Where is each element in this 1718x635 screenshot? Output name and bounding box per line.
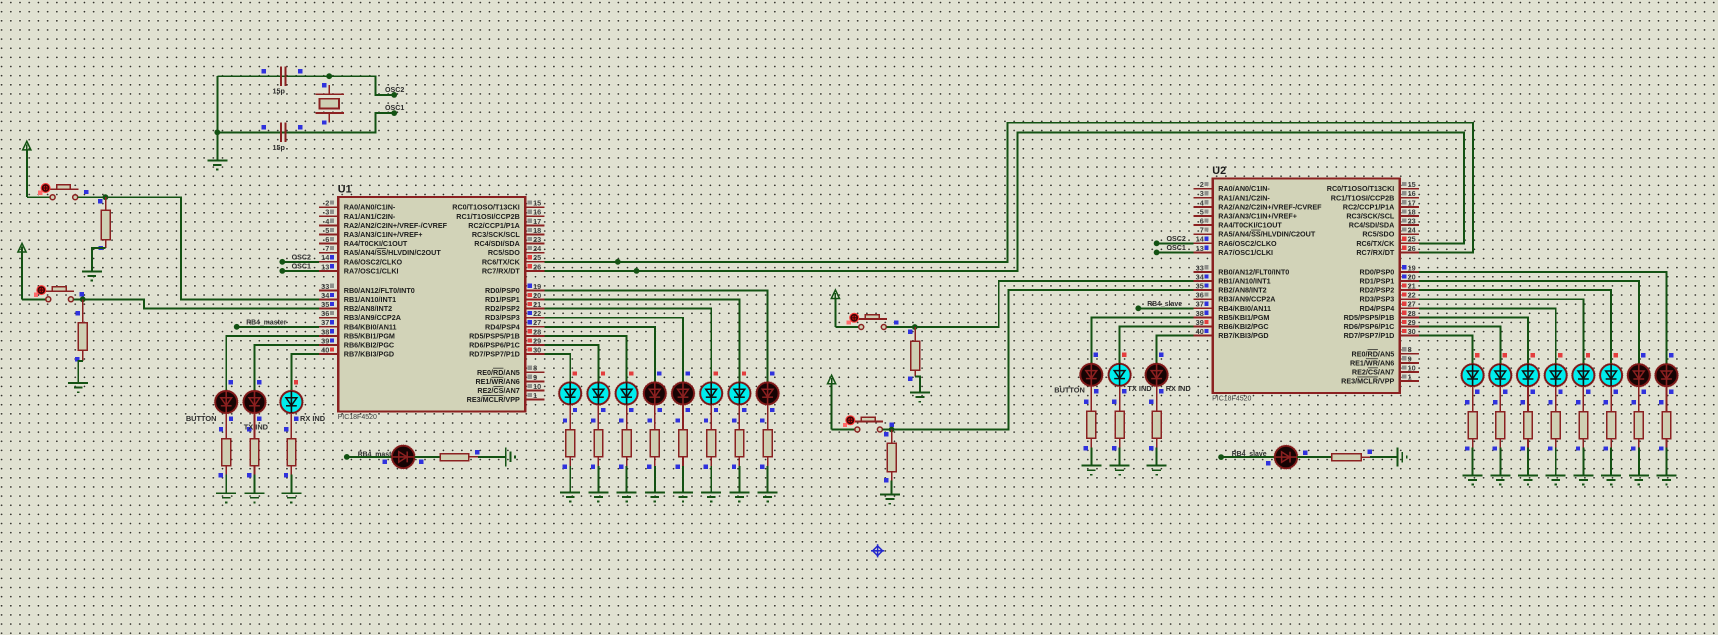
svg-text:RB4_slave: RB4_slave <box>1147 301 1182 308</box>
svg-text:15: 15 <box>533 199 541 208</box>
svg-text:RC2/CCP1/P1A: RC2/CCP1/P1A <box>468 221 520 230</box>
wire left rail to ground <box>216 76 218 160</box>
svg-text:RA7/OSC1/CLKI: RA7/OSC1/CLKI <box>1218 248 1273 257</box>
svg-text:RB0/AN12/FLT0/INT0: RB0/AN12/FLT0/INT0 <box>1218 267 1289 276</box>
svg-text:34: 34 <box>1196 272 1205 281</box>
LED D10 RB4_slave <box>1266 445 1307 470</box>
svg-text:RA4/T0CKI/C1OUT: RA4/T0CKI/C1OUT <box>1218 221 1282 230</box>
svg-text:RC7/RX/DT: RC7/RX/DT <box>1356 248 1395 257</box>
resistor R1 pulldown <box>92 197 110 271</box>
LED bank2 D4 (RD4) <box>1544 351 1568 484</box>
svg-text:RD6/PSP6/P1C: RD6/PSP6/P1C <box>1344 322 1395 331</box>
svg-text:39: 39 <box>321 336 329 345</box>
svg-text:OSC1: OSC1 <box>292 263 311 271</box>
svg-text:26: 26 <box>1408 244 1416 253</box>
svg-text:26: 26 <box>533 262 541 271</box>
node RX wire dot <box>634 268 640 274</box>
svg-text:29: 29 <box>1408 318 1416 327</box>
svg-text:5: 5 <box>325 226 329 235</box>
svg-text:RD7/PSP7/P1D: RD7/PSP7/P1D <box>1344 331 1395 340</box>
svg-text:30: 30 <box>1408 327 1416 336</box>
svg-text:39: 39 <box>1196 318 1204 327</box>
svg-text:37: 37 <box>1196 300 1204 309</box>
svg-text:RE2/CS/AN7: RE2/CS/AN7 <box>1352 368 1394 377</box>
svg-text:RD1/PSP1: RD1/PSP1 <box>485 295 520 304</box>
svg-text:18: 18 <box>533 226 541 235</box>
svg-text:35: 35 <box>1196 282 1204 291</box>
svg-text:RA5/AN4/SS/HLVDIN/C2OUT: RA5/AN4/SS/HLVDIN/C2OUT <box>344 248 442 257</box>
svg-text:RD5/PSP5/P1B: RD5/PSP5/P1B <box>1344 313 1395 322</box>
wire U1 TX (pin25) to U2 RX (pin26) <box>545 123 1473 262</box>
wire U2 pin19 (RD0) to bank LED 8 <box>1419 272 1666 351</box>
LED slave TX IND indicator <box>1108 351 1153 475</box>
svg-text:33: 33 <box>1196 263 1204 272</box>
svg-text:RC7/RX/DT: RC7/RX/DT <box>482 266 521 275</box>
wire U1 pin21 (RD2) to bank LED 6 <box>545 309 712 370</box>
svg-text:15p: 15p <box>273 87 286 96</box>
svg-text:38: 38 <box>321 327 329 336</box>
svg-text:RC3/SCK/SCL: RC3/SCK/SCL <box>1346 212 1395 221</box>
svg-text:23: 23 <box>1408 217 1416 226</box>
wire U1 RX (pin26) to U2 TX (pin25) <box>545 133 1464 271</box>
svg-text:RD0/PSP0: RD0/PSP0 <box>485 286 520 295</box>
svg-text:RD4/PSP4: RD4/PSP4 <box>1360 304 1395 313</box>
svg-text:RA5/AN4/SS/HLVDIN/C2OUT: RA5/AN4/SS/HLVDIN/C2OUT <box>1218 230 1316 239</box>
svg-text:27: 27 <box>533 318 541 327</box>
LED slave BUTTON indicator <box>1054 351 1103 475</box>
svg-text:21: 21 <box>1408 282 1416 291</box>
LED bank2 D1 (RD7) <box>1461 351 1485 484</box>
svg-text:3: 3 <box>325 208 329 217</box>
button master (to RB1) <box>38 183 88 200</box>
node RB4_slave terminal (U2 pin37) <box>1135 301 1193 311</box>
wire VCC to button1 <box>27 196 50 198</box>
svg-text:RC1/T1OSI/CCP2B: RC1/T1OSI/CCP2B <box>1331 193 1395 202</box>
node OSC2 terminal (crystal) <box>385 86 404 98</box>
svg-text:RB0/AN12/FLT0/INT0: RB0/AN12/FLT0/INT0 <box>344 286 415 295</box>
svg-text:35: 35 <box>321 300 329 309</box>
svg-text:RB2/AN8/INT2: RB2/AN8/INT2 <box>1218 286 1266 295</box>
svg-text:21: 21 <box>533 300 541 309</box>
LED bank1 D8 (RD0) <box>756 369 780 501</box>
svg-text:RC1/T1OSI/CCP2B: RC1/T1OSI/CCP2B <box>456 212 520 221</box>
svg-text:5: 5 <box>1200 207 1204 216</box>
node OSC1 terminal (crystal) <box>385 104 404 116</box>
svg-text:RE0/RD/AN5: RE0/RD/AN5 <box>1352 349 1395 358</box>
svg-text:RB5/KBI1/PGM: RB5/KBI1/PGM <box>1218 313 1269 322</box>
LED slave RX IND indicator <box>1145 351 1192 475</box>
svg-text:27: 27 <box>1408 300 1416 309</box>
svg-text:RD6/PSP6/P1C: RD6/PSP6/P1C <box>469 341 520 350</box>
svg-text:14: 14 <box>321 253 330 262</box>
svg-text:RA4/T0CKI/C1OUT: RA4/T0CKI/C1OUT <box>344 239 408 248</box>
ground R4 <box>910 393 930 402</box>
resistor R6 (RB4_slave) <box>1297 450 1397 461</box>
wire U1 pin20 (RD1) to bank LED 7 <box>545 300 740 370</box>
svg-text:20: 20 <box>1408 272 1416 281</box>
resistor R4 pulldown <box>908 327 920 393</box>
svg-text:RE3/MCLR/VPP: RE3/MCLR/VPP <box>467 395 520 404</box>
svg-text:RB5/KBI1/PGM: RB5/KBI1/PGM <box>344 331 395 340</box>
svg-text:RE0/RD/AN5: RE0/RD/AN5 <box>477 368 520 377</box>
svg-text:22: 22 <box>1408 291 1416 300</box>
svg-text:RB6/KBI2/PGC: RB6/KBI2/PGC <box>1218 322 1268 331</box>
svg-text:3: 3 <box>1200 189 1204 198</box>
LED bank1 D6 (RD2) <box>699 369 723 501</box>
svg-text:U2: U2 <box>1212 165 1226 177</box>
resistor R2 pulldown <box>75 299 87 383</box>
svg-text:RC0/T1OSO/T13CKI: RC0/T1OSO/T13CKI <box>1327 184 1395 193</box>
LED D9 RB4_master <box>382 445 423 470</box>
wire U2 pin29 (RD6) to bank LED 2 <box>1419 327 1500 352</box>
svg-text:36: 36 <box>321 309 329 318</box>
svg-text:RC5/SDO: RC5/SDO <box>488 248 520 257</box>
resistor R5 pulldown <box>884 430 896 495</box>
svg-text:7: 7 <box>325 244 329 253</box>
capacitor C2 15p <box>262 123 303 152</box>
svg-text:19: 19 <box>1408 263 1416 272</box>
svg-text:RE1/WR/AN6: RE1/WR/AN6 <box>1350 358 1394 367</box>
svg-text:RC0/T1OSO/T13CKI: RC0/T1OSO/T13CKI <box>452 203 520 212</box>
svg-text:23: 23 <box>533 235 541 244</box>
wire U2 pin38 to slave BUTTON LED <box>1091 317 1193 350</box>
svg-text:PIC18F4520: PIC18F4520 <box>338 414 377 421</box>
svg-text:RD2/PSP2: RD2/PSP2 <box>485 304 520 313</box>
wire U2 pin27 (RD4) to bank LED 4 <box>1419 308 1556 351</box>
wire U1 pin38 to BUTTON LED <box>226 336 319 378</box>
svg-text:RB3/AN9/CCP2A: RB3/AN9/CCP2A <box>344 313 401 322</box>
svg-text:OSC2: OSC2 <box>385 86 404 94</box>
power VCC arrow (button 3) <box>831 290 839 327</box>
svg-text:RA3/AN3/C1IN+/VREF+: RA3/AN3/C1IN+/VREF+ <box>1218 212 1297 221</box>
node button4 junction <box>889 427 895 433</box>
wire U1 pin28 (RD5) to bank LED 3 <box>545 336 627 370</box>
svg-text:RD5/PSP5/P1B: RD5/PSP5/P1B <box>469 331 520 340</box>
svg-text:28: 28 <box>533 327 541 336</box>
svg-text:OSC2: OSC2 <box>292 253 311 261</box>
svg-text:RA0/AN0/C1IN-: RA0/AN0/C1IN- <box>1218 184 1270 193</box>
svg-text:24: 24 <box>533 244 542 253</box>
svg-text:19: 19 <box>533 282 541 291</box>
wire U1 pin27 (RD4) to bank LED 4 <box>545 327 655 370</box>
node OSC2 terminal (U1 pin14) <box>279 253 319 264</box>
wire U2 pin39 to slave TX IND LED <box>1120 327 1194 351</box>
svg-text:RE1/WR/AN6: RE1/WR/AN6 <box>475 377 519 386</box>
svg-text:RE3/MCLR/VPP: RE3/MCLR/VPP <box>1341 377 1394 386</box>
svg-text:RB4_master: RB4_master <box>246 320 287 327</box>
LED bank1 D4 (RD4) <box>643 369 667 501</box>
svg-text:RC4/SDI/SDA: RC4/SDI/SDA <box>1349 221 1395 230</box>
svg-text:RB4/KBI0/AN11: RB4/KBI0/AN11 <box>1218 304 1271 313</box>
svg-text:9: 9 <box>1408 354 1412 363</box>
svg-text:34: 34 <box>321 291 330 300</box>
node sheet origin marker <box>871 544 884 557</box>
wire RB4_master to LED D9 <box>347 456 392 458</box>
svg-text:20: 20 <box>533 291 541 300</box>
LED bank2 D5 (RD3) <box>1571 351 1595 484</box>
svg-text:15: 15 <box>1408 180 1416 189</box>
node TX wire dot <box>615 259 621 265</box>
LED master RX IND indicator <box>279 378 325 502</box>
svg-text:25: 25 <box>1408 235 1416 244</box>
svg-text:1: 1 <box>533 391 537 400</box>
LED bank2 D6 (RD2) <box>1599 351 1623 484</box>
svg-text:6: 6 <box>1200 217 1204 226</box>
wire U1 pin40 to RX IND LED <box>291 354 319 378</box>
svg-text:OSC1: OSC1 <box>385 104 404 112</box>
wire button4 to U2 pin35 <box>882 290 1193 436</box>
wire U2 pin40 to slave RX IND LED <box>1157 336 1194 351</box>
svg-text:RD2/PSP2: RD2/PSP2 <box>1360 286 1395 295</box>
wire crystal bottom net <box>217 113 394 132</box>
svg-text:RD3/PSP3: RD3/PSP3 <box>485 313 520 322</box>
svg-text:13: 13 <box>1196 244 1204 253</box>
svg-text:RA1/AN1/C2IN-: RA1/AN1/C2IN- <box>344 212 396 221</box>
svg-text:8: 8 <box>1408 345 1412 354</box>
ground RB4_master chain <box>506 447 515 466</box>
svg-text:RB4/KBI0/AN11: RB4/KBI0/AN11 <box>344 322 397 331</box>
wire crystal top net <box>217 76 394 95</box>
node button3 junction <box>912 324 918 330</box>
wire VCC to button2 <box>22 298 46 300</box>
wire U1 pin30 (RD7) to bank LED 1 <box>545 354 571 369</box>
button slave 2 (to RB2) <box>843 415 894 432</box>
svg-text:6: 6 <box>325 235 329 244</box>
svg-text:17: 17 <box>1408 198 1416 207</box>
svg-text:17: 17 <box>533 217 541 226</box>
svg-text:RA7/OSC1/CLKI: RA7/OSC1/CLKI <box>344 266 399 275</box>
svg-text:16: 16 <box>533 208 541 217</box>
svg-text:RB1/AN10/INT1: RB1/AN10/INT1 <box>344 295 396 304</box>
ground R5 <box>880 495 900 504</box>
wire U2 pin30 (RD7) to bank LED 1 <box>1419 336 1472 352</box>
svg-text:RX IND: RX IND <box>1166 384 1192 393</box>
wire U2 pin21 (RD2) to bank LED 6 <box>1419 290 1611 351</box>
svg-text:RA2/AN2/C2IN+/VREF-/CVREF: RA2/AN2/C2IN+/VREF-/CVREF <box>344 221 448 230</box>
LED bank1 D1 (RD7) <box>558 369 582 501</box>
svg-text:RB3/AN9/CCP2A: RB3/AN9/CCP2A <box>1218 295 1275 304</box>
svg-text:24: 24 <box>1408 226 1417 235</box>
svg-text:36: 36 <box>1196 291 1204 300</box>
svg-text:18: 18 <box>1408 207 1416 216</box>
wire button1 to U1 pin34 <box>78 197 319 299</box>
resistor R3 (RB4_master) <box>414 450 505 461</box>
node button2 junction <box>80 296 86 302</box>
node OSC2 terminal (U2 pin14) <box>1154 235 1194 246</box>
LED bank1 D3 (RD5) <box>615 369 639 501</box>
wire U1 pin19 (RD0) to bank LED 8 <box>545 290 768 369</box>
svg-text:RB7/KBI3/PGD: RB7/KBI3/PGD <box>1218 331 1268 340</box>
svg-text:RD0/PSP0: RD0/PSP0 <box>1360 267 1395 276</box>
svg-text:RA3/AN3/C1IN+/VREF+: RA3/AN3/C1IN+/VREF+ <box>344 230 423 239</box>
svg-text:BUTTON: BUTTON <box>1054 386 1085 395</box>
microcontroller U2 PIC18F4520 <box>1193 165 1419 403</box>
svg-text:33: 33 <box>321 282 329 291</box>
svg-text:10: 10 <box>1408 363 1416 372</box>
svg-text:RA6/OSC2/CLKO: RA6/OSC2/CLKO <box>344 257 403 266</box>
power VCC arrow (button 4) <box>828 375 836 429</box>
svg-text:RC2/CCP1/P1A: RC2/CCP1/P1A <box>1343 202 1395 211</box>
wire VCC to button4 <box>832 429 855 431</box>
svg-text:40: 40 <box>321 346 329 355</box>
node button1 junction <box>103 194 109 200</box>
LED bank1 D7 (RD1) <box>727 369 751 501</box>
wire button3 to U2 pin34 <box>886 281 1193 334</box>
power VCC arrow (button 2) <box>18 243 26 299</box>
svg-text:RD4/PSP4: RD4/PSP4 <box>485 322 520 331</box>
svg-text:RB2/AN8/INT2: RB2/AN8/INT2 <box>344 304 392 313</box>
wire U2 pin20 (RD1) to bank LED 7 <box>1419 281 1639 351</box>
svg-text:15p: 15p <box>273 143 286 152</box>
svg-text:8: 8 <box>533 364 537 373</box>
svg-text:40: 40 <box>1196 327 1204 336</box>
wire U1 pin22 (RD3) to bank LED 5 <box>545 318 683 370</box>
ground crystal rail <box>207 160 227 169</box>
LED bank2 D2 (RD6) <box>1488 351 1512 484</box>
svg-text:RD1/PSP1: RD1/PSP1 <box>1360 277 1395 286</box>
svg-text:28: 28 <box>1408 309 1416 318</box>
microcontroller U1 PIC18F4520 <box>319 184 545 422</box>
svg-text:RX IND: RX IND <box>300 414 326 423</box>
node RB4_master terminal (U1 pin37) <box>234 320 319 330</box>
node RB4_slave terminal (LED chain) <box>1218 451 1267 460</box>
button master 2 (to RB2) <box>34 285 84 302</box>
svg-text:RA2/AN2/C2IN+/VREF-/CVREF: RA2/AN2/C2IN+/VREF-/CVREF <box>1218 202 1322 211</box>
svg-text:TX IND: TX IND <box>1127 384 1152 393</box>
svg-text:RB6/KBI2/PGC: RB6/KBI2/PGC <box>344 341 394 350</box>
svg-text:2: 2 <box>325 199 329 208</box>
svg-text:1: 1 <box>1408 373 1412 382</box>
svg-text:TX IND: TX IND <box>244 422 269 431</box>
svg-text:OSC2: OSC2 <box>1167 235 1186 243</box>
svg-text:9: 9 <box>533 373 537 382</box>
svg-text:RA1/AN1/C2IN-: RA1/AN1/C2IN- <box>1218 193 1270 202</box>
ground R2 <box>68 383 88 392</box>
LED bank1 D5 (RD3) <box>671 369 695 501</box>
svg-text:14: 14 <box>1196 235 1205 244</box>
ground R1 <box>82 271 102 280</box>
wire U1 pin39 to TX IND LED <box>255 345 319 378</box>
power VCC arrow (button 1) <box>23 141 31 197</box>
svg-text:13: 13 <box>321 262 329 271</box>
node RB4_master terminal (LED chain) <box>344 451 398 459</box>
svg-text:RB7/KBI3/PGD: RB7/KBI3/PGD <box>344 350 394 359</box>
svg-text:RA0/AN0/C1IN-: RA0/AN0/C1IN- <box>344 203 396 212</box>
svg-text:7: 7 <box>1200 226 1204 235</box>
svg-text:30: 30 <box>533 346 541 355</box>
svg-text:RD3/PSP3: RD3/PSP3 <box>1360 295 1395 304</box>
button slave (to RB1) <box>847 313 899 330</box>
svg-text:RC4/SDI/SDA: RC4/SDI/SDA <box>474 239 520 248</box>
svg-text:RD7/PSP7/P1D: RD7/PSP7/P1D <box>469 350 520 359</box>
svg-text:U1: U1 <box>338 184 352 196</box>
svg-text:RB1/AN10/INT1: RB1/AN10/INT1 <box>1218 277 1270 286</box>
svg-text:RE2/CS/AN7: RE2/CS/AN7 <box>477 386 519 395</box>
LED master BUTTON indicator <box>186 378 238 502</box>
LED bank2 D7 (RD1) <box>1627 351 1651 484</box>
LED master TX IND indicator <box>242 378 268 502</box>
svg-text:PIC18F4520: PIC18F4520 <box>1212 396 1251 403</box>
svg-text:RC6/TX/CK: RC6/TX/CK <box>482 257 521 266</box>
wire VCC to button3 <box>835 326 858 328</box>
svg-text:16: 16 <box>1408 189 1416 198</box>
node OSC1 terminal (U1 pin13) <box>279 263 319 274</box>
wire button2 to U1 pin35 <box>73 299 319 315</box>
crystal X1 <box>316 83 344 125</box>
svg-text:RC3/SCK/SCL: RC3/SCK/SCL <box>472 230 521 239</box>
node OSC1 terminal (U2 pin13) <box>1154 244 1194 255</box>
svg-text:RC5/SDO: RC5/SDO <box>1362 230 1394 239</box>
svg-text:38: 38 <box>1196 309 1204 318</box>
ground RB4_slave chain <box>1398 448 1407 467</box>
svg-text:10: 10 <box>533 382 541 391</box>
LED bank2 D8 (RD0) <box>1654 351 1678 484</box>
svg-text:37: 37 <box>321 318 329 327</box>
svg-text:25: 25 <box>533 253 541 262</box>
node crystal top junction <box>326 73 332 79</box>
svg-text:29: 29 <box>533 336 541 345</box>
wire U2 pin22 (RD3) to bank LED 5 <box>1419 299 1583 351</box>
wire RB4_slave to LED D10 <box>1221 456 1275 458</box>
svg-text:2: 2 <box>1200 180 1204 189</box>
wire U1 pin29 (RD6) to bank LED 2 <box>545 345 599 369</box>
svg-text:22: 22 <box>533 309 541 318</box>
svg-text:BUTTON: BUTTON <box>186 414 217 423</box>
svg-text:RC6/TX/CK: RC6/TX/CK <box>1356 239 1395 248</box>
svg-text:OSC1: OSC1 <box>1167 244 1186 252</box>
LED bank2 D3 (RD5) <box>1516 351 1540 484</box>
svg-text:RA6/OSC2/CLKO: RA6/OSC2/CLKO <box>1218 239 1277 248</box>
wire U2 pin28 (RD5) to bank LED 3 <box>1419 317 1528 351</box>
node crystal bottom junction <box>214 129 220 135</box>
LED bank1 D2 (RD6) <box>586 369 610 501</box>
capacitor C1 15p <box>262 67 303 96</box>
